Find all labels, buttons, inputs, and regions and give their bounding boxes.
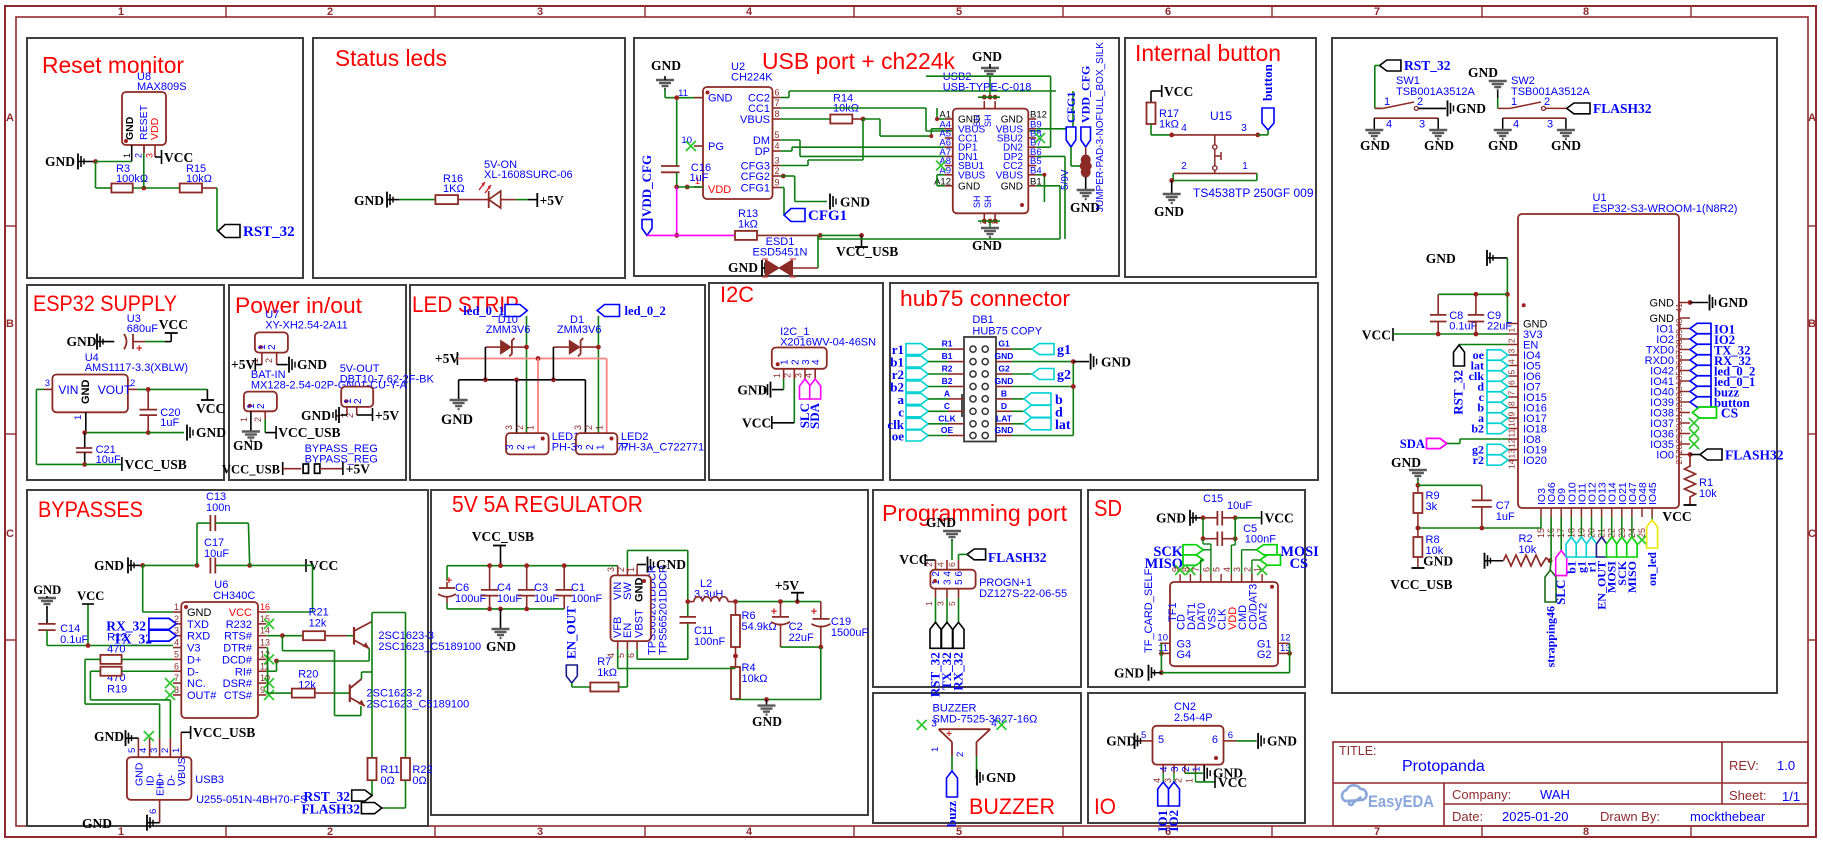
svg-text:5: 5 (956, 6, 962, 18)
resistor R16 1K (435, 173, 464, 204)
svg-text:6: 6 (1201, 567, 1211, 572)
svg-text:U15: U15 (1210, 109, 1232, 123)
svg-text:EasyEDA: EasyEDA (1368, 793, 1434, 811)
svg-text:B: B (1808, 318, 1816, 330)
svg-text:2: 2 (1417, 96, 1423, 108)
ic U2 CH224K (678, 61, 781, 199)
power flag VCC internal (1151, 84, 1193, 103)
wire i2c gnd (737, 379, 783, 398)
svg-text:GND: GND (1468, 65, 1498, 80)
svg-text:6: 6 (1212, 734, 1218, 746)
svg-text:2.54-4P: 2.54-4P (1174, 712, 1213, 724)
svg-text:5/9V: 5/9V (1060, 169, 1071, 190)
buzzer SMD-7525 (930, 703, 1037, 758)
svg-text:EN: EN (622, 623, 634, 638)
wire gnd row (82, 420, 184, 435)
svg-text:31: 31 (1674, 413, 1684, 423)
svg-text:9: 9 (775, 178, 780, 188)
svg-text:680uF: 680uF (127, 323, 158, 335)
esp32 left pins (1507, 319, 1548, 470)
svg-text:C: C (1808, 528, 1816, 540)
wire GND to R16 (399, 199, 435, 201)
svg-text:TSB001A3512A: TSB001A3512A (1396, 86, 1476, 98)
svg-text:10uF: 10uF (204, 548, 229, 560)
power flag VCC prog (899, 552, 935, 567)
esp32 g2 r2 flags (1472, 443, 1508, 468)
svg-text:4: 4 (138, 748, 149, 753)
svg-text:1/1: 1/1 (1782, 789, 1800, 804)
svg-text:8: 8 (1583, 6, 1589, 18)
svg-text:1: 1 (930, 747, 941, 752)
svg-text:2025-01-20: 2025-01-20 (1502, 809, 1569, 824)
svg-text:10uF: 10uF (1227, 500, 1252, 512)
svg-text:1uF: 1uF (1496, 511, 1515, 523)
svg-text:6: 6 (1165, 6, 1171, 18)
svg-text:GND: GND (1267, 734, 1297, 749)
svg-text:3: 3 (793, 373, 803, 378)
EasyEDA logo (1342, 785, 1367, 805)
power flag GND tps (637, 557, 686, 573)
svg-text:RXD: RXD (187, 631, 210, 643)
wire esp32 vcc rail (1393, 332, 1508, 337)
svg-text:+5V: +5V (346, 462, 370, 477)
power flag +5V batin (231, 357, 262, 372)
svg-text:GND: GND (972, 238, 1002, 253)
svg-text:TITLE:: TITLE: (1339, 744, 1377, 758)
svg-text:GND: GND (133, 762, 145, 786)
svg-text:3: 3 (537, 6, 543, 18)
svg-text:ESP32 SUPPLY: ESP32 SUPPLY (33, 291, 177, 316)
svg-text:5: 5 (1507, 370, 1517, 375)
connector LED1 PH-3A (504, 425, 629, 454)
svg-text:4: 4 (1181, 123, 1187, 134)
svg-text:7: 7 (1507, 391, 1517, 396)
svg-text:11: 11 (678, 88, 688, 99)
svg-text:strapping46: strapping46 (1544, 606, 1558, 667)
svg-text:VCC: VCC (1218, 775, 1247, 790)
svg-text:1: 1 (780, 359, 791, 365)
power flag VCC_USB (836, 235, 898, 259)
wire io pin1 vcc (1196, 773, 1248, 790)
ports b1 g1 r1 esp32 (1564, 517, 1598, 574)
svg-text:RST_32: RST_32 (1451, 370, 1466, 415)
svg-text:RX_32: RX_32 (951, 652, 966, 690)
svg-text:1: 1 (122, 153, 132, 158)
svg-text:2: 2 (256, 403, 267, 409)
port strapping46 (1544, 517, 1558, 667)
svg-text:1: 1 (772, 373, 782, 378)
svg-text:BYPASSES: BYPASSES (38, 497, 143, 522)
svg-text:VCC: VCC (77, 589, 104, 603)
resistor R12 470 (85, 632, 173, 664)
capacitor C17 10uF (204, 537, 229, 574)
svg-text:SMD-7525-3627-16Ω: SMD-7525-3627-16Ω (933, 714, 1038, 726)
svg-text:led_0_2: led_0_2 (625, 304, 666, 318)
svg-text:1: 1 (171, 748, 182, 753)
svg-text:SW: SW (622, 582, 634, 600)
svg-text:C: C (944, 401, 950, 411)
svg-text:Protopanda: Protopanda (1402, 758, 1485, 775)
svg-text:4: 4 (1222, 567, 1232, 572)
wire LED to +5V (516, 199, 538, 201)
svg-text:GND: GND (33, 583, 61, 597)
svg-text:6: 6 (947, 562, 957, 567)
port VDD_CFG vertical right (1079, 66, 1093, 147)
no-connect usb3 ID (144, 731, 154, 741)
svg-text:GND: GND (196, 425, 226, 440)
svg-text:5: 5 (1212, 567, 1222, 572)
svg-text:+: + (946, 729, 952, 740)
svg-text:1: 1 (1253, 567, 1263, 572)
svg-text:3: 3 (573, 425, 583, 430)
wire esp32 gnd rail (1438, 258, 1510, 324)
resistor R9 3k (1413, 485, 1439, 528)
svg-text:GND: GND (1391, 455, 1421, 470)
svg-text:10kΩ: 10kΩ (742, 673, 768, 685)
svg-text:VBST: VBST (634, 609, 646, 638)
power flag GND sd (1156, 510, 1203, 526)
svg-text:IO0: IO0 (1656, 450, 1674, 462)
ic TF1 TF_CARD_SELF (1143, 567, 1291, 666)
svg-text:VDD_CFG: VDD_CFG (1079, 66, 1093, 123)
resistor R13 1k (735, 208, 758, 240)
svg-text:GND: GND (1154, 204, 1184, 219)
svg-text:OUT#: OUT# (187, 690, 217, 702)
svg-text:2: 2 (585, 444, 596, 450)
power flag GND esp32 top (1426, 250, 1508, 266)
ground reg input (486, 609, 516, 654)
svg-text:10k: 10k (1519, 544, 1537, 556)
resistor R6 54.9k (731, 602, 777, 669)
svg-text:B: B (1001, 388, 1007, 398)
svg-text:2: 2 (327, 6, 333, 18)
svg-text:VCC: VCC (1265, 511, 1294, 526)
USB port box (634, 38, 1119, 276)
svg-text:1.0: 1.0 (1777, 758, 1795, 773)
svg-text:CH224K: CH224K (731, 72, 773, 84)
transistor Q2 2SC1623-2 (350, 679, 469, 711)
svg-text:3: 3 (505, 444, 516, 450)
wire SW bootstrap loop (627, 550, 690, 659)
svg-text:D+: D+ (187, 654, 201, 666)
svg-text:B1: B1 (942, 351, 953, 361)
svg-text:A: A (944, 388, 950, 398)
svg-text:JUMPER-PAD-3-NOFULL_BOX_SILK: JUMPER-PAD-3-NOFULL_BOX_SILK (1095, 42, 1106, 212)
diode D1 ZMM3V6 (553, 314, 601, 356)
svg-text:Drawn By:: Drawn By: (1600, 809, 1660, 824)
svg-text:1: 1 (527, 444, 538, 450)
ground reg output (752, 700, 782, 730)
svg-text:+: + (811, 606, 817, 618)
power flag GND c14 (33, 583, 61, 607)
svg-text:3: 3 (606, 567, 616, 572)
port button (1258, 63, 1275, 135)
connector I2C_1 X2016WV (772, 326, 876, 379)
svg-text:1500uF: 1500uF (831, 627, 869, 639)
svg-text:10: 10 (1157, 633, 1168, 644)
svg-text:1: 1 (73, 415, 84, 420)
svg-text:+5V: +5V (435, 351, 459, 366)
capacitor C6 100uF (438, 575, 486, 605)
svg-text:D-: D- (187, 666, 199, 678)
svg-text:CH340C: CH340C (213, 590, 255, 602)
capacitor C20 1uF (140, 389, 181, 432)
ic U6 CH340C (173, 579, 270, 718)
svg-text:DCD#: DCD# (222, 654, 253, 666)
svg-text:R12: R12 (107, 632, 127, 644)
capacitor C4 10uF (481, 566, 522, 609)
power flag GND sw1 pin2 (1418, 100, 1486, 116)
capacitor C7 1uF (1418, 485, 1515, 528)
ic TPS565201DDCR (606, 565, 670, 658)
svg-text:VIN: VIN (58, 383, 78, 397)
svg-text:Reset monitor: Reset monitor (42, 52, 184, 78)
svg-text:XY-XH2.54-2A11: XY-XH2.54-2A11 (265, 320, 348, 332)
svg-text:VCC_USB: VCC_USB (472, 529, 534, 544)
svg-text:EH: EH (155, 781, 167, 796)
port FLASH32 sw2 (1546, 101, 1652, 116)
svg-text:3: 3 (1241, 123, 1247, 134)
wire DP run (781, 147, 945, 151)
svg-text:1: 1 (595, 425, 605, 430)
port CS esp32 (1692, 406, 1738, 421)
svg-text:2: 2 (516, 444, 527, 450)
wire R3-R15 node (133, 145, 180, 190)
svg-text:IO2: IO2 (1166, 810, 1181, 832)
svg-text:G2: G2 (998, 364, 1010, 374)
svg-text:13: 13 (260, 638, 270, 648)
wire V3 row (47, 643, 173, 648)
svg-text:1kΩ: 1kΩ (1159, 119, 1179, 131)
svg-text:100n: 100n (206, 502, 230, 514)
svg-text:6: 6 (775, 88, 780, 98)
svg-text:5: 5 (127, 748, 138, 753)
svg-text:6: 6 (1507, 380, 1517, 385)
svg-text:RTS#: RTS# (224, 631, 253, 643)
power flag GND buzzer (976, 756, 1017, 786)
svg-text:3: 3 (504, 425, 514, 430)
svg-text:9: 9 (1507, 412, 1517, 417)
port SDA i2c (807, 379, 822, 429)
svg-text:36: 36 (1674, 360, 1684, 370)
svg-text:SD: SD (1094, 495, 1122, 521)
connector USB3 U255-051N (127, 738, 307, 823)
svg-text:TS4538TP 250GF 009: TS4538TP 250GF 009 (1193, 186, 1314, 200)
svg-text:TSB001A3512A: TSB001A3512A (1511, 86, 1591, 98)
ports MOSI SCK MISO esp32 (1605, 517, 1639, 593)
power flag GND io right (1237, 733, 1298, 749)
no-connect buzzer (917, 720, 927, 730)
capacitor C15 10uF (1201, 493, 1262, 526)
svg-text:29: 29 (1674, 434, 1684, 444)
svg-text:2SC1623_C5189100: 2SC1623_C5189100 (378, 641, 481, 653)
power flag +5V reg (775, 578, 804, 602)
svg-text:+: + (136, 343, 142, 355)
svg-text:VCC: VCC (309, 558, 338, 573)
svg-text:R19: R19 (107, 684, 127, 696)
svg-text:BUZZER: BUZZER (969, 794, 1055, 819)
ESP32 SUPPLY box (27, 285, 224, 480)
wire R13 to VCC_USB (757, 233, 864, 238)
svg-text:GND: GND (651, 58, 681, 73)
svg-text:R2: R2 (942, 364, 953, 374)
port FLASH32 prog (959, 549, 1047, 565)
svg-text:7: 7 (1191, 567, 1201, 572)
svg-text:35: 35 (1674, 371, 1684, 381)
5V regulator box (431, 490, 868, 815)
ground sw1 pin3 (1424, 130, 1454, 153)
power flag GND status (354, 192, 399, 208)
svg-text:SH: SH (972, 195, 982, 208)
svg-text:GND: GND (972, 49, 1002, 64)
capacitor C13 100n (197, 491, 250, 565)
svg-text:3: 3 (1170, 766, 1181, 772)
resistor R4 10k (731, 662, 767, 700)
svg-text:1kΩ: 1kΩ (738, 219, 758, 231)
esp32 left io flags (1469, 348, 1508, 436)
ports SCK MISO sd (1145, 544, 1211, 582)
svg-text:2: 2 (775, 166, 780, 176)
svg-text:ZMM3V6: ZMM3V6 (486, 324, 531, 336)
svg-text:100nF: 100nF (571, 593, 602, 605)
esp32 right io flags (1690, 323, 1755, 411)
svg-text:5 6: 5 6 (954, 571, 965, 585)
svg-text:Power in/out: Power in/out (235, 293, 362, 318)
svg-text:FLASH32: FLASH32 (1725, 448, 1784, 463)
svg-text:g2: g2 (1057, 368, 1071, 383)
power flag GND (45, 154, 96, 170)
port SDA esp32 (1400, 437, 1508, 451)
svg-text:41: 41 (1674, 303, 1684, 313)
resistor R19 470 (90, 667, 173, 696)
svg-text:MISO: MISO (1625, 561, 1639, 593)
svg-text:GND: GND (1423, 554, 1453, 569)
svg-text:GND: GND (82, 816, 112, 831)
svg-text:4: 4 (1159, 766, 1170, 772)
port FLASH32 bypass (301, 780, 405, 816)
svg-text:VCC: VCC (1362, 328, 1391, 343)
connector PROGN DZ127S (924, 560, 1067, 606)
svg-text:VCC: VCC (1164, 84, 1193, 99)
switch SW2 TSB001A3512A (1498, 75, 1591, 131)
svg-text:1: 1 (596, 444, 607, 450)
svg-text:Status leds: Status leds (335, 45, 447, 71)
svg-text:2: 2 (134, 153, 144, 158)
svg-text:VCC_USB: VCC_USB (278, 425, 340, 440)
I2C box (709, 283, 883, 480)
power flag VCC (155, 150, 193, 165)
port RST_32 bypass (303, 780, 372, 804)
port FLASH32 esp32 (1688, 448, 1784, 463)
svg-text:5: 5 (947, 601, 957, 606)
power flag GND prog (926, 515, 961, 560)
svg-text:GND: GND (986, 770, 1016, 785)
svg-text:GND: GND (1156, 511, 1186, 526)
power flag VCC bypass (306, 558, 338, 573)
svg-text:buzz: buzz (944, 801, 959, 827)
svg-text:NC.: NC. (187, 678, 206, 690)
svg-text:2: 2 (327, 826, 333, 838)
resistor R15 10k (180, 163, 212, 193)
svg-text:FLASH32: FLASH32 (988, 550, 1047, 565)
port RST_32 sw1 (1375, 58, 1451, 108)
svg-text:g1: g1 (1057, 343, 1071, 358)
svg-text:3: 3 (1507, 349, 1517, 354)
svg-text:DTR#: DTR# (223, 643, 253, 655)
svg-text:2: 2 (790, 359, 801, 365)
svg-text:7: 7 (1374, 6, 1380, 18)
wire batin vccusb (265, 419, 340, 440)
svg-text:D: D (1001, 401, 1007, 411)
resistor R8 10k (1413, 528, 1443, 568)
wire led_0_1 down (524, 316, 529, 433)
svg-text:CLK: CLK (938, 413, 956, 423)
power flag VCC_USB supply (85, 457, 187, 472)
Reset monitor box (27, 38, 303, 278)
svg-text:button: button (1260, 63, 1275, 101)
resistor R20 12k (268, 669, 350, 698)
capacitor C3 10uF (518, 566, 559, 609)
svg-text:VDD: VDD (708, 184, 731, 196)
svg-text:VBUS: VBUS (996, 170, 1024, 181)
svg-text:RI#: RI# (235, 666, 253, 678)
svg-text:GND: GND (737, 382, 767, 397)
capacitor C2 22uF (771, 602, 814, 648)
svg-text:1: 1 (118, 826, 124, 838)
switch SW1 TSB001A3512A (1374, 75, 1475, 131)
wire collectors loop (362, 613, 406, 758)
svg-text:34: 34 (1674, 381, 1684, 391)
svg-text:7: 7 (1374, 826, 1380, 838)
svg-text:7: 7 (775, 98, 780, 108)
svg-text:3: 3 (574, 444, 585, 450)
wire led_0_2 down (596, 316, 601, 433)
svg-text:TPS565201DDCR: TPS565201DDCR (658, 565, 670, 655)
port on_led esp32 (1645, 517, 1659, 586)
resistor R17 1k (1147, 103, 1180, 131)
svg-text:GND: GND (728, 260, 758, 275)
svg-text:4: 4 (1152, 778, 1162, 783)
svg-text:R1: R1 (942, 339, 953, 349)
svg-text:CFG1: CFG1 (1064, 92, 1078, 123)
capacitor C1 100nF (556, 566, 603, 609)
wire reg input rail (447, 563, 618, 611)
svg-text:GND: GND (995, 351, 1014, 361)
capacitor C16 1uF (661, 95, 711, 187)
port RST_32 (218, 224, 295, 240)
resistor R21 12k (266, 607, 347, 641)
svg-text:V3: V3 (187, 643, 200, 655)
wire CC2 run (781, 91, 1056, 98)
svg-text:1: 1 (174, 602, 179, 612)
wire RTS to Q2 emitter (282, 636, 361, 716)
svg-text:hub75 connector: hub75 connector (900, 286, 1070, 311)
wire bypass rail (140, 563, 306, 568)
svg-text:3: 3 (45, 378, 50, 389)
svg-text:G4: G4 (1177, 649, 1192, 661)
power flag GND 5vout (301, 407, 347, 423)
connector DB1 HUB75 COPY (962, 314, 1043, 442)
jumper 5/9V pads (1060, 42, 1106, 215)
power flag VCC_USB usb3 (181, 725, 255, 740)
svg-text:1 2: 1 2 (931, 571, 942, 585)
svg-text:4: 4 (1507, 359, 1517, 364)
svg-text:Company:: Company: (1452, 787, 1511, 802)
ic U8 MAX809S (122, 71, 187, 162)
power flag GND io left (1106, 733, 1140, 749)
svg-text:mockthebear: mockthebear (1690, 809, 1766, 824)
svg-text:FLASH32: FLASH32 (1593, 101, 1652, 116)
